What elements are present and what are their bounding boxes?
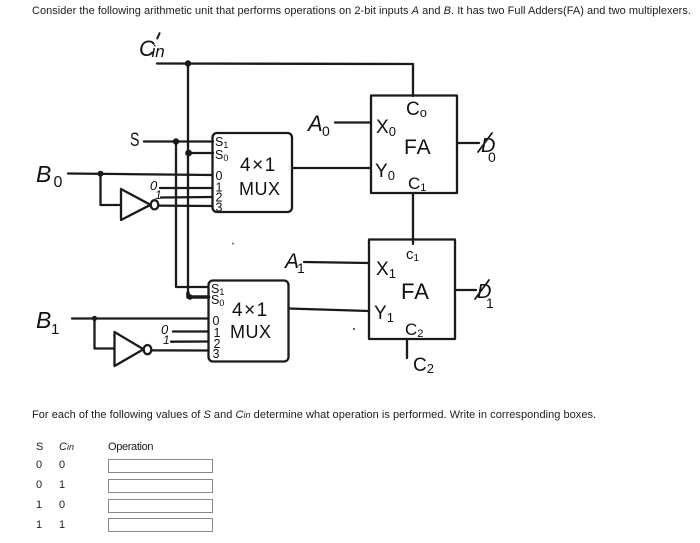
wire Cin horizontal to FA1 carry-in — [157, 62, 413, 65]
junction B0 branch — [98, 171, 104, 177]
svg-text:C2: C2 — [413, 355, 434, 376]
inverter 1 bubble — [151, 200, 159, 209]
slash through D1 — [475, 280, 489, 299]
MUX1 value label 4x1 MUX — [239, 155, 281, 199]
row 1 — [36, 459, 42, 471]
svg-text:FA: FA — [404, 136, 432, 159]
svg-text:Y0: Y0 — [375, 161, 395, 183]
wire MUX1 output to FA1 Y0 — [292, 167, 371, 169]
svg-text:c1: c1 — [406, 246, 420, 264]
svg-text:C2: C2 — [405, 320, 423, 340]
wire constant 0 stub to MUX1 input 1 — [160, 187, 213, 189]
wire constant 1 stub to MUX1 input 2 — [161, 196, 213, 199]
svg-text:X1: X1 — [376, 259, 396, 281]
MUX2 pin labels — [211, 282, 224, 361]
svg-text:C1: C1 — [408, 174, 426, 194]
table header — [36, 441, 43, 453]
full adder FA2 box — [369, 240, 455, 340]
wire inverter 1 output to MUX1 input 3 — [158, 204, 212, 207]
svg-text:B: B — [36, 307, 51, 333]
wire FA1 sum output — [457, 142, 479, 144]
wire constant 1 stub to MUX2 input 2 — [171, 340, 209, 343]
full adder FA1 box — [371, 96, 457, 194]
svg-text:B: B — [36, 161, 51, 187]
svg-text:X0: X0 — [376, 117, 396, 139]
svg-text:4×1: 4×1 — [232, 300, 269, 321]
wire B1 branch to inverter 2 — [95, 318, 115, 348]
junction B1 branch — [92, 316, 97, 321]
svg-text:1: 1 — [486, 295, 494, 311]
svg-text:0: 0 — [488, 149, 496, 165]
MUX2 value label 4x1 MUX — [230, 300, 272, 342]
slash through D0 — [478, 133, 492, 152]
node A0 label — [306, 111, 330, 139]
svg-text:4×1: 4×1 — [240, 155, 277, 176]
node D1 output label (slashed) — [477, 281, 494, 311]
row 2 — [36, 479, 42, 491]
node B0 label — [36, 161, 63, 191]
svg-text:MUX: MUX — [230, 322, 272, 342]
svg-text:3: 3 — [213, 347, 220, 361]
wire MUX2 output to FA2 Y1 — [289, 309, 370, 312]
wire constant 0 stub to MUX2 input 1 — [173, 330, 209, 332]
multiplexer MUX1 box — [213, 133, 293, 212]
svg-text:FA: FA — [401, 279, 430, 304]
node Cin label — [139, 36, 165, 61]
wire B1 to MUX2 input 0 — [72, 317, 209, 319]
wire S vertical down to MUX2 S1 — [176, 142, 209, 288]
question text line 1 — [32, 5, 691, 17]
blob at MUX2 S0 bend — [187, 294, 193, 300]
svg-text:in: in — [152, 42, 165, 61]
svg-text:Y1: Y1 — [374, 303, 394, 325]
svg-text:1: 1 — [163, 333, 170, 347]
wire S to MUX1 S1 — [144, 140, 213, 142]
svg-text:S: S — [130, 130, 140, 151]
node B1 label — [36, 307, 59, 338]
wire FA1 carry out C1 down to FA2 — [412, 193, 414, 244]
junction Cin/S0 vertical — [185, 60, 191, 66]
row 3 — [36, 499, 42, 511]
node C2 label — [413, 355, 434, 376]
wire S0 tap to MUX1 — [189, 152, 213, 154]
svg-text:1: 1 — [155, 188, 162, 202]
wire B0 to MUX1 input 0 — [68, 174, 213, 176]
wire A1 to FA2 X1 — [304, 262, 369, 263]
junction S0 tap — [185, 150, 192, 157]
wire inverter 2 output to MUX2 input 3 — [151, 349, 208, 351]
inverter (NOT gate) for B1 — [115, 332, 144, 366]
row 4 — [36, 519, 42, 531]
MUX1 pin labels — [215, 135, 228, 215]
svg-text:0: 0 — [54, 174, 63, 191]
svg-text:0: 0 — [322, 123, 330, 139]
wire FA2 carry out C2 stub — [406, 339, 408, 358]
question text line 2 — [32, 409, 596, 421]
svg-text:3: 3 — [216, 201, 223, 215]
svg-text:S0: S0 — [215, 148, 228, 163]
FA1 pin labels — [375, 99, 432, 194]
svg-text:1: 1 — [51, 321, 59, 338]
wire B0 branch to inverter 1 — [101, 174, 122, 205]
ink speck below MUX1 — [232, 243, 234, 245]
node D0 output label (slashed) — [481, 135, 496, 165]
wire FA2 sum output — [455, 289, 476, 291]
svg-text:MUX: MUX — [239, 179, 281, 199]
tick above Cin — [157, 33, 159, 38]
wire FA1 carry-in drop — [412, 64, 414, 96]
wire A0 to FA1 X0 — [335, 121, 371, 123]
multiplexer MUX2 box — [209, 281, 289, 362]
svg-text:Co: Co — [406, 99, 427, 120]
node A1 label — [283, 250, 305, 276]
FA2 pin labels — [374, 246, 430, 340]
wire Cin vertical down to MUX2 S0 — [187, 64, 189, 294]
junction S vertical — [173, 138, 179, 144]
svg-text:A: A — [306, 111, 323, 136]
inverter (NOT gate) for B0 — [121, 189, 151, 220]
inverter 2 bubble — [144, 345, 152, 354]
ink speck — [353, 328, 355, 330]
